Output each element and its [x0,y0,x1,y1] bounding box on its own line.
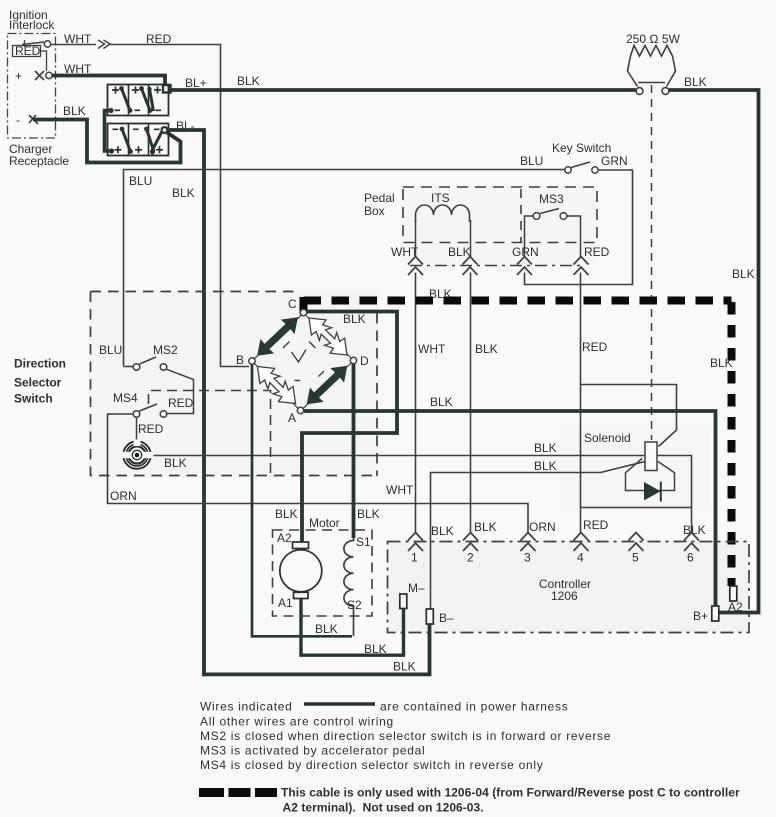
svg-text:Pedal: Pedal [364,191,395,205]
terminal A2 [730,586,737,601]
svg-text:BLK: BLK [448,245,471,259]
svg-text:S2: S2 [347,598,362,612]
svg-text:BLK: BLK [430,395,453,409]
svg-text:BLK: BLK [357,507,380,521]
svg-text:MS2 is closed when direction s: MS2 is closed when direction selector sw… [200,729,611,743]
MS3 contacts [533,213,540,220]
solenoid diode [644,482,661,501]
BL+ terminal square [163,85,171,93]
wire WHT thick from + to battery [52,76,165,85]
solenoid coil body [645,442,657,471]
svg-text:ORN: ORN [529,520,556,534]
battery row 2 straps [122,129,162,153]
heavy dashed cable C post to controller A2 [300,297,308,314]
terminal M- [400,594,407,609]
battery row 2 box [108,124,169,156]
direction selector dashed box [91,292,378,477]
svg-text:BLU: BLU [99,343,122,357]
boxed RED label [13,46,41,57]
motor armature circle [280,550,322,592]
wire RED MS2 to MS4 [166,369,193,413]
svg-text:BLK: BLK [710,356,733,370]
motor armature terminal A1 [294,592,309,598]
plus terminal circle [46,72,52,78]
solenoid contact wire to RED and pin 6 [581,456,692,508]
svg-text:BLK: BLK [275,507,298,521]
svg-text:BLK: BLK [393,660,416,674]
svg-text:6: 6 [687,551,694,565]
svg-text:-: - [16,113,20,127]
controller pin 1 [408,533,423,552]
svg-text:M–: M– [408,581,425,595]
MS4 contacts [133,411,140,418]
wire pin 6 up [691,507,693,533]
svg-text:This cable is only used with 1: This cable is only used with 1206-04 (fr… [281,786,740,800]
svg-text:WHT: WHT [386,483,414,497]
MS3 lever [540,209,559,214]
svg-text:BLK: BLK [684,75,707,89]
battery row 1 cell marks [112,87,161,111]
interlock switch lever [22,42,44,45]
controller pin 2 [463,533,478,552]
wire B post to S2 jumper [252,365,352,637]
wire RED box to + terminal [41,51,47,71]
wire BLK solenoid coil to controller B- [431,462,646,610]
svg-text:A2: A2 [728,600,743,614]
svg-text:250 Ω 5W: 250 Ω 5W [626,32,681,46]
node A [297,407,303,413]
wire GRN inside pedal box [525,216,534,257]
svg-text:BLK: BLK [172,186,195,200]
ITS lead wires [416,220,471,257]
battery row 1 straps [122,89,154,112]
wire BLK motor A1 to controller M- [301,599,404,656]
svg-text:A2: A2 [277,531,292,545]
node C [300,309,306,315]
controller pin 5 [629,533,644,552]
svg-text:Box: Box [364,204,385,218]
pedal box bottom dash-dot border [410,265,583,267]
legend heavy cable dashes [199,788,277,797]
svg-text:BLU: BLU [520,154,543,168]
wire BLU to MS2 [124,366,134,368]
svg-text:BLK: BLK [364,642,387,656]
svg-text:Selector: Selector [14,376,62,390]
legend power harness sample line [304,702,375,705]
resistor body outline [628,56,638,87]
svg-text:RED: RED [146,32,172,46]
svg-text:Direction: Direction [14,357,66,371]
controller pin 4 [574,533,589,552]
wire WHT pedal box to controller pin 1 [415,273,417,534]
svg-text:WHT: WHT [64,62,92,76]
battery row 2 cell marks [113,129,164,153]
svg-text:MS3 is activated by accelerato: MS3 is activated by accelerator pedal [200,744,425,758]
svg-text:A: A [288,411,296,425]
node B [249,358,255,364]
svg-text:BLK: BLK [732,267,755,281]
svg-text:RED: RED [584,245,610,259]
white arrow C-D [302,310,355,362]
MS4 lever [140,404,158,411]
controller pin 3 [521,533,536,552]
wire RED inside pedal box [567,216,581,257]
wire BLK buzzer to solenoid coil [152,455,646,457]
svg-text:BLK: BLK [343,312,366,326]
svg-text:MS4 is closed by direction sel: MS4 is closed by direction selector swit… [200,758,543,772]
diamond edge C-D [306,316,351,359]
svg-text:BLK: BLK [475,342,498,356]
svg-text:WHT: WHT [418,342,446,356]
motor dashed box [273,530,373,616]
wire BLK battery minus to controller B- [202,624,429,674]
interlock switch contact circle [44,41,50,47]
svg-text:1: 1 [411,551,418,565]
reverse buzzer [123,441,151,469]
svg-text:4: 4 [577,551,584,565]
battery series strap row1 to row2 [105,111,112,152]
diamond edge C-B [255,316,302,359]
svg-text:3: 3 [524,551,531,565]
white arrow B-A [250,359,303,411]
svg-text:ITS: ITS [431,191,450,205]
pedal box connector chevrons [408,257,423,276]
key switch lever [571,162,590,168]
svg-text:BLK: BLK [63,104,86,118]
svg-text:RED: RED [582,340,608,354]
MS3 sub-box left dashed edge [520,189,522,242]
svg-text:BLK: BLK [534,441,557,455]
svg-text:D: D [360,354,369,368]
svg-text:WHT: WHT [64,32,92,46]
svg-text:RED: RED [15,44,41,58]
svg-text:C: C [288,297,297,311]
svg-text:Interlock: Interlock [9,18,55,32]
resistor terminal circles [636,88,643,95]
inline connector chevrons >> [98,40,110,49]
svg-text:All other wires are control wi: All other wires are control wiring [200,715,394,729]
svg-text:MS3: MS3 [539,192,564,206]
wire BLK thick battery to resistor [171,88,637,92]
svg-text:MS4: MS4 [113,391,138,405]
svg-text:B+: B+ [693,609,708,623]
svg-text:Receptacle: Receptacle [9,154,69,168]
wire GRN key switch down to pedal box [525,170,633,285]
center pivot marks [292,350,307,363]
controller pin 6 [684,533,699,552]
pedal box dashed outline [403,187,597,243]
svg-text:are contained in power harness: are contained in power harness [380,700,568,714]
terminal B+ [712,606,719,621]
svg-text:5: 5 [632,551,639,565]
solenoid contact loop left [626,459,675,491]
wire BLK thick from - terminal [33,120,181,163]
wire RED pedal box to controller pin 4 [580,273,582,534]
svg-text:BL+: BL+ [185,76,207,90]
svg-text:BLK: BLK [474,520,497,534]
node D [350,357,356,363]
svg-text:2: 2 [467,551,474,565]
direction selector switch bold label [14,357,66,406]
diamond edge B-A [254,363,298,408]
wire BLU from selector box to key switch [124,170,565,367]
svg-text:+: + [15,69,22,83]
svg-text:B–: B– [439,611,454,625]
MS2 contacts [133,364,140,371]
svg-text:BLK: BLK [534,459,557,473]
legend bold note [281,786,740,815]
wire RED MS4 to buzzer [136,418,138,442]
dark arrow C-B [250,310,304,363]
svg-text:BLK: BLK [431,524,454,538]
ITS inductor coil [416,205,470,222]
key switch contacts [565,167,571,173]
wire BL- thick down right side [168,130,205,676]
svg-text:Motor: Motor [309,516,340,530]
terminal B- [426,609,433,624]
wire BLK pedal box to controller pin 2 [470,273,472,534]
svg-text:Key Switch: Key Switch [552,141,611,155]
wire RED to vertical drop [110,45,249,367]
wire RED branch to solenoid coil [581,385,677,447]
wire ORN MS4 to controller pin 3 [108,414,529,533]
wire BLK thick C post to motor A2 [302,312,397,543]
svg-text:1206: 1206 [551,589,578,603]
svg-text:ORN: ORN [110,489,137,503]
svg-text:RED: RED [583,518,609,532]
svg-text:BLU: BLU [129,174,152,188]
charger receptacle dash-dot box [8,34,56,139]
svg-text:Solenoid: Solenoid [584,431,631,445]
diamond edge D-A [303,363,351,408]
wire BLK thick resistor to right edge and down to B+ [669,90,759,613]
dashed reference line resistor to solenoid [651,85,653,440]
MS4 inner dashed box [149,391,271,477]
svg-text:BLK: BLK [237,74,260,88]
wire BLK thick A post to controller B+ [304,411,716,606]
svg-text:BLK: BLK [164,456,187,470]
svg-text:S1: S1 [356,535,371,549]
svg-text:GRN: GRN [601,154,628,168]
resistor zigzag [631,46,673,57]
svg-text:A1: A1 [278,596,293,610]
dark arrow D-A [300,358,354,411]
svg-text:RED: RED [138,422,164,436]
svg-text:A2 terminal). Not used on 120: A2 terminal). Not used on 1206-03. [283,801,484,815]
svg-text:MS2: MS2 [153,343,178,357]
svg-text:Switch: Switch [14,392,53,406]
svg-text:Wires indicated: Wires indicated [200,700,293,714]
wire BLK thick D post to motor S1 [352,364,356,538]
MS2 lever [140,357,157,364]
motor armature terminal A2 [293,542,309,549]
svg-text:RED: RED [168,396,194,410]
battery row 1 box [108,85,169,116]
svg-text:B: B [236,353,244,367]
svg-text:BLK: BLK [315,622,338,636]
controller 1206 dash-dot box [388,542,750,633]
wire WHT from interlock switch [51,44,96,46]
BL- terminal circle [162,127,168,133]
